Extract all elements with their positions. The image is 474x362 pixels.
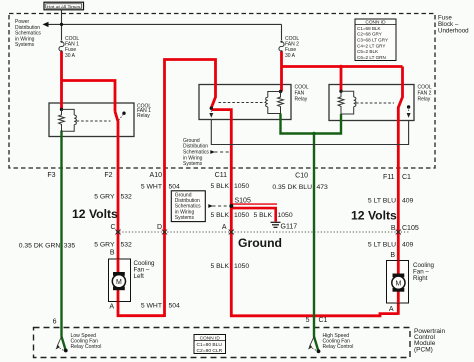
svg-text:C2=80 CLR: C2=80 CLR bbox=[197, 348, 223, 354]
svg-text:12 Volts: 12 Volts bbox=[351, 209, 397, 223]
svg-text:335: 335 bbox=[64, 243, 76, 250]
svg-text:5 WHT: 5 WHT bbox=[141, 184, 162, 191]
svg-text:504: 504 bbox=[169, 184, 181, 191]
svg-text:C1=68 BLK: C1=68 BLK bbox=[357, 26, 382, 31]
svg-text:C3=68 LT GRY: C3=68 LT GRY bbox=[357, 38, 388, 43]
svg-text:B: B bbox=[390, 252, 395, 259]
svg-text:0.35 DK BLU: 0.35 DK BLU bbox=[272, 184, 312, 191]
svg-text:532: 532 bbox=[121, 242, 133, 249]
svg-text:5 BLK: 5 BLK bbox=[210, 183, 229, 190]
svg-text:M: M bbox=[116, 279, 122, 286]
svg-text:G117: G117 bbox=[281, 224, 298, 231]
svg-text:Relay: Relay bbox=[295, 96, 308, 102]
svg-text:Underhood: Underhood bbox=[438, 28, 469, 35]
svg-text:1050: 1050 bbox=[234, 263, 249, 270]
svg-text:409: 409 bbox=[402, 242, 414, 249]
svg-text:1050: 1050 bbox=[234, 183, 249, 190]
svg-text:473: 473 bbox=[317, 184, 329, 191]
svg-text:5 LT BLU: 5 LT BLU bbox=[368, 198, 396, 205]
svg-text:C10: C10 bbox=[295, 173, 308, 180]
svg-text:C2=68 GRY: C2=68 GRY bbox=[357, 32, 382, 37]
svg-text:532: 532 bbox=[121, 194, 133, 201]
svg-text:A: A bbox=[389, 306, 394, 313]
svg-text:Systems: Systems bbox=[175, 215, 195, 221]
svg-text:0.35 DK GRN: 0.35 DK GRN bbox=[19, 243, 61, 250]
svg-text:504: 504 bbox=[169, 302, 181, 309]
svg-text:5 WHT: 5 WHT bbox=[141, 302, 162, 309]
svg-text:C1: C1 bbox=[402, 174, 411, 181]
svg-text:A: A bbox=[109, 304, 114, 311]
svg-text:30 A: 30 A bbox=[285, 53, 296, 59]
svg-text:Relay: Relay bbox=[418, 96, 431, 102]
svg-text:Right: Right bbox=[413, 275, 428, 282]
svg-text:409: 409 bbox=[402, 198, 414, 205]
svg-text:Systems: Systems bbox=[183, 161, 203, 167]
svg-text:F2: F2 bbox=[104, 172, 112, 179]
svg-text:C4=2 LT GRY: C4=2 LT GRY bbox=[357, 43, 385, 48]
svg-text:Relay Control: Relay Control bbox=[323, 344, 354, 350]
svg-text:Relay Control: Relay Control bbox=[71, 344, 102, 350]
svg-text:30 A: 30 A bbox=[65, 53, 76, 59]
svg-text:(PCM): (PCM) bbox=[414, 346, 433, 353]
svg-text:5 GRY: 5 GRY bbox=[94, 194, 115, 201]
svg-text:B: B bbox=[110, 250, 115, 257]
svg-text:C105: C105 bbox=[402, 225, 419, 232]
svg-text:5 BLK: 5 BLK bbox=[210, 263, 229, 270]
svg-text:5 BLK: 5 BLK bbox=[253, 212, 272, 219]
svg-text:6: 6 bbox=[53, 319, 57, 326]
svg-text:5 BLK: 5 BLK bbox=[210, 212, 229, 219]
svg-text:5 GRY: 5 GRY bbox=[94, 242, 115, 249]
svg-text:5: 5 bbox=[306, 317, 310, 324]
svg-text:C1=80 BLU: C1=80 BLU bbox=[197, 342, 223, 348]
svg-text:C: C bbox=[110, 224, 115, 231]
svg-text:Hot at All Times: Hot at All Times bbox=[47, 4, 81, 10]
svg-text:S105: S105 bbox=[235, 197, 251, 204]
svg-text:1050: 1050 bbox=[278, 212, 293, 219]
svg-text:D: D bbox=[157, 224, 162, 231]
svg-text:1050: 1050 bbox=[234, 212, 249, 219]
svg-text:12 Volts: 12 Volts bbox=[72, 207, 118, 221]
svg-text:A: A bbox=[222, 224, 227, 231]
svg-text:Left: Left bbox=[134, 273, 145, 280]
svg-text:5 LT BLU: 5 LT BLU bbox=[368, 242, 396, 249]
svg-text:C5=2 BLK: C5=2 BLK bbox=[357, 49, 379, 54]
svg-text:C11: C11 bbox=[215, 172, 227, 179]
svg-text:A10: A10 bbox=[150, 172, 163, 179]
svg-text:Relay: Relay bbox=[137, 113, 150, 119]
svg-text:CONN ID: CONN ID bbox=[200, 336, 221, 342]
svg-text:C6=2 LT GRN: C6=2 LT GRN bbox=[357, 55, 386, 60]
svg-text:C1: C1 bbox=[319, 317, 328, 324]
svg-text:Ground: Ground bbox=[238, 236, 282, 250]
svg-text:F11: F11 bbox=[383, 174, 395, 181]
svg-text:CONN ID: CONN ID bbox=[365, 20, 386, 26]
svg-text:B: B bbox=[391, 225, 396, 232]
svg-text:Systems: Systems bbox=[15, 42, 35, 48]
svg-text:F3: F3 bbox=[47, 172, 55, 179]
svg-text:M: M bbox=[395, 281, 401, 288]
